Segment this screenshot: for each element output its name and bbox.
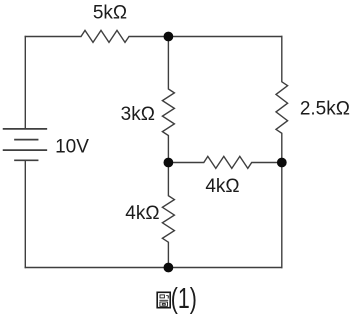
wire left top (battery to top-left corner): [24, 37, 26, 129]
wire bottom: [25, 267, 282, 269]
svg-text:4kΩ: 4kΩ: [125, 203, 159, 224]
wire middle horizontal with resistor R5 4k zigzag: [168, 156, 281, 168]
wire left bottom (battery to bottom-left corner): [24, 161, 26, 268]
battery V1 plate short bottom: [15, 159, 38, 161]
node C (right junction): [277, 158, 287, 168]
svg-text:10V: 10V: [55, 137, 89, 158]
node D (bottom junction): [164, 263, 174, 273]
battery V1 plate short upper: [15, 139, 38, 141]
svg-text:4kΩ: 4kΩ: [205, 176, 239, 197]
wire middle branch with resistor R3 3k and resistor R4 4k zigzags: [162, 37, 174, 268]
battery V1 plate long top: [4, 128, 47, 130]
wire top with resistor R1 5k zigzag: [25, 30, 282, 42]
svg-text:3kΩ: 3kΩ: [121, 104, 155, 125]
svg-text:5kΩ: 5kΩ: [93, 3, 127, 24]
svg-text:(1): (1): [171, 283, 197, 315]
node B (middle junction): [164, 158, 174, 168]
node A (top middle junction): [164, 32, 174, 42]
battery V1 plate long lower: [4, 149, 47, 151]
svg-text:2.5kΩ: 2.5kΩ: [300, 99, 350, 120]
wire right with resistor R2 2.5k zigzag: [276, 37, 288, 268]
caption figure glyph (CJK tu) drawn as vector: [157, 292, 170, 307]
